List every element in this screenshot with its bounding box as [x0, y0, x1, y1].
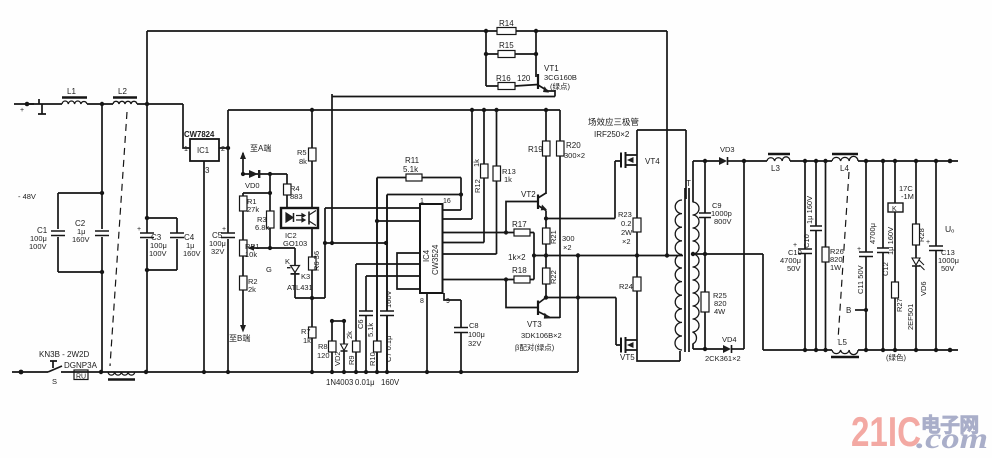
optocoupler IC2 box — [281, 208, 318, 228]
resistor R8 — [331, 321, 333, 372]
wire VT1-emitter line down x=332 — [331, 94, 333, 243]
resistor R21 — [543, 228, 551, 244]
capacitor C10b 1u — [815, 161, 817, 350]
svg-text:ATL431: ATL431 — [287, 283, 313, 292]
capacitor C2 — [95, 231, 109, 236]
svg-text:L2: L2 — [118, 87, 127, 96]
wire R8-VD2 link — [332, 320, 344, 322]
diode VD6 — [912, 258, 920, 265]
optocoupler IC2 internals — [286, 213, 293, 222]
resistor R16 — [486, 85, 538, 87]
transformer T secondary winding — [693, 202, 700, 344]
capacitor C1 — [51, 231, 65, 236]
svg-text:120: 120 — [517, 74, 531, 83]
wire R17 row y=232.5 — [443, 233, 535, 256]
node B arrowhead — [240, 325, 246, 333]
shunt reg K3 ATL431 — [295, 273, 312, 299]
wire C6 stub — [366, 276, 420, 372]
wire bottom left bus — [12, 371, 578, 373]
svg-text:+: + — [793, 242, 797, 249]
resistor R19 — [545, 110, 547, 194]
svg-text:1k×2: 1k×2 — [508, 253, 526, 262]
svg-text:R27: R27 — [895, 298, 904, 312]
wire secondary center tap out — [693, 254, 763, 350]
svg-text:R17: R17 — [512, 220, 527, 229]
svg-text:+: + — [926, 239, 930, 246]
resistor R23 — [636, 165, 638, 256]
svg-text:R9: R9 — [347, 355, 356, 365]
wire IC2 collector riser x=325 — [312, 208, 420, 298]
svg-text:4W: 4W — [714, 307, 726, 316]
resistor R14 — [486, 30, 536, 32]
svg-text:VD4: VD4 — [722, 335, 737, 344]
diode VD0 body — [249, 170, 258, 178]
svg-text:R22: R22 — [549, 270, 558, 284]
resistor R28 — [915, 161, 917, 258]
svg-text:160V: 160V — [72, 235, 90, 244]
capacitor C7 — [380, 311, 394, 316]
svg-text:R14: R14 — [499, 19, 514, 28]
svg-text:Uₒ: Uₒ — [945, 224, 954, 234]
switch S lever — [48, 361, 62, 372]
svg-text:K: K — [892, 206, 897, 213]
svg-text:3CG160B: 3CG160B — [544, 73, 577, 82]
wire top rail — [147, 30, 667, 32]
resistor R15 — [486, 53, 536, 55]
svg-text:C8: C8 — [469, 321, 479, 330]
svg-text:5.1k: 5.1k — [366, 323, 375, 337]
svg-text:6.8k: 6.8k — [255, 223, 269, 232]
wire output bottom rail — [763, 349, 958, 351]
svg-text:5.1k: 5.1k — [403, 165, 419, 174]
wire RP1 wiper — [253, 247, 270, 249]
svg-text:R8: R8 — [318, 342, 328, 351]
transformer T primary winding — [675, 200, 682, 350]
wire R11 left leg / R10 line — [376, 178, 378, 373]
wire rectifier join x=744 — [743, 161, 745, 349]
resistor R10 — [374, 341, 382, 352]
transistor VT1 — [537, 74, 539, 89]
svg-text:K3: K3 — [301, 272, 310, 281]
svg-text:32V: 32V — [468, 339, 481, 348]
svg-text:.com: .com — [916, 422, 988, 455]
svg-text:L1: L1 — [67, 87, 76, 96]
svg-text:4700μ: 4700μ — [868, 223, 877, 244]
wire R18 row y=279.5 — [443, 256, 535, 280]
svg-text:+: + — [20, 107, 24, 114]
resistor R3 — [269, 193, 271, 248]
relay K — [894, 161, 896, 282]
svg-text:2EF501: 2EF501 — [906, 304, 915, 330]
inductor L2 — [113, 101, 137, 104]
wire AC input line y=104 — [27, 104, 190, 148]
svg-text:1: 1 — [184, 146, 188, 153]
svg-text:1k: 1k — [504, 175, 512, 184]
svg-text:VD6: VD6 — [919, 281, 928, 296]
svg-text:120: 120 — [317, 351, 330, 360]
node A arrow — [242, 153, 244, 174]
resistor R2 — [240, 276, 248, 290]
svg-text:21IC: 21IC — [851, 408, 921, 455]
wire secondary top to VD3 — [693, 161, 719, 202]
svg-text:0.2: 0.2 — [621, 219, 631, 228]
wire pin9 to C8 — [444, 293, 461, 372]
svg-text:160V: 160V — [183, 249, 201, 258]
svg-text:VD3: VD3 — [720, 145, 735, 154]
svg-text:8k: 8k — [299, 157, 307, 166]
node B terminal — [855, 309, 866, 311]
svg-text:C12: C12 — [881, 262, 890, 276]
svg-text:VT5: VT5 — [620, 353, 635, 362]
watermark 21IC.com — [851, 408, 988, 455]
svg-text:β配对(绿点): β配对(绿点) — [515, 342, 555, 352]
svg-text:100V: 100V — [29, 242, 47, 251]
inductor L4 — [832, 156, 858, 161]
svg-text:1: 1 — [420, 198, 424, 205]
wire L2 coupling dash — [110, 112, 127, 366]
svg-text:×2: ×2 — [622, 237, 631, 246]
svg-text:VT2: VT2 — [521, 190, 536, 199]
wire C4 branch — [147, 218, 177, 270]
svg-text:1μ 160V: 1μ 160V — [886, 227, 895, 255]
resistor R25 — [704, 254, 706, 349]
capacitor C6 — [359, 311, 373, 316]
svg-text:2k: 2k — [345, 331, 354, 339]
svg-text:R18: R18 — [512, 266, 527, 275]
svg-text:2: 2 — [221, 146, 225, 153]
diode VD4 — [723, 345, 731, 353]
svg-text:32V: 32V — [211, 247, 224, 256]
svg-text:1k: 1k — [472, 159, 481, 167]
wire pin16 loop — [387, 195, 461, 211]
text labels output section — [705, 145, 959, 363]
svg-text:R15: R15 — [499, 41, 514, 50]
svg-text:100μ: 100μ — [468, 330, 485, 339]
svg-text:50V: 50V — [787, 264, 800, 273]
wire pin2 stub — [377, 220, 420, 222]
wire C7 line x=387 — [386, 195, 388, 373]
svg-text:R16: R16 — [496, 74, 511, 83]
shunt reg K3 symbol — [291, 266, 300, 273]
svg-text:1N4003: 1N4003 — [326, 378, 353, 387]
wire R3 to K3 — [270, 248, 295, 266]
wire +24V rail y=110 — [228, 109, 560, 111]
inductor L1 — [62, 101, 87, 104]
wire L4-L5 coupling dash — [838, 172, 849, 340]
svg-text:2CK361×2: 2CK361×2 — [705, 354, 741, 363]
mosfet VT5 — [620, 338, 622, 353]
svg-text:10k: 10k — [245, 250, 257, 259]
svg-text:R24: R24 — [619, 282, 633, 291]
rotated small labels — [312, 159, 558, 366]
svg-text:L3: L3 — [771, 164, 780, 173]
wire R14 branch verticals — [486, 31, 536, 86]
wire pin8 down — [426, 293, 428, 372]
wire right drop of top rail to center-tap line — [666, 31, 668, 256]
mosfet VT4 — [620, 153, 622, 168]
svg-text:R7: R7 — [301, 327, 311, 336]
potentiometer RP1 — [240, 240, 248, 256]
text labels regulator cluster — [229, 143, 485, 387]
wire VT2 base — [506, 202, 538, 233]
svg-text:3: 3 — [205, 166, 210, 175]
svg-text:S: S — [52, 377, 57, 386]
wire secondary bottom to VD4 — [693, 344, 723, 349]
svg-text:R10: R10 — [368, 352, 377, 366]
wire RP1-R2 — [242, 256, 244, 276]
svg-text:R19: R19 — [528, 145, 543, 154]
svg-text:RU: RU — [76, 374, 86, 381]
svg-text:R6 36: R6 36 — [312, 251, 321, 271]
wire VT5 gate drive — [546, 298, 621, 346]
svg-text:+: + — [857, 246, 861, 253]
wire pin stub to rail x=472 — [443, 110, 473, 219]
resistor R22 — [543, 268, 551, 284]
svg-text:R5: R5 — [297, 148, 307, 157]
svg-text:B: B — [846, 306, 851, 315]
snubber capacitor C9 — [704, 161, 706, 254]
svg-text:50V: 50V — [941, 264, 954, 273]
svg-text:C7 0.1μ: C7 0.1μ — [384, 336, 393, 362]
svg-text:160V: 160V — [381, 378, 400, 387]
svg-text:KN3B - 2W2D: KN3B - 2W2D — [39, 350, 89, 359]
resistor R20 — [559, 110, 561, 141]
svg-text:K: K — [285, 257, 290, 266]
svg-text:L5: L5 — [838, 338, 847, 347]
inductor L5 — [832, 350, 858, 355]
capacitor C4 — [170, 233, 184, 238]
svg-text:G: G — [266, 265, 272, 274]
svg-text:1k: 1k — [303, 336, 311, 345]
capacitor C3 — [140, 233, 154, 238]
svg-text:R11: R11 — [405, 156, 420, 165]
wire bus upturn at x=578 — [577, 256, 579, 373]
IC4 box CW3524 — [420, 204, 443, 293]
svg-text:- 48V: - 48V — [18, 192, 36, 201]
svg-text:2W: 2W — [621, 228, 633, 237]
svg-text:VT4: VT4 — [645, 157, 660, 166]
svg-text:IC4: IC4 — [422, 249, 431, 262]
capacitor C5 — [221, 233, 235, 238]
resistor R17 — [514, 229, 530, 236]
diode VD3 — [719, 157, 727, 165]
svg-text:300: 300 — [562, 234, 575, 243]
resistor R7 — [311, 298, 313, 372]
svg-text:DGNP3A: DGNP3A — [64, 361, 98, 370]
diode VD0 — [243, 173, 287, 175]
svg-text:C6: C6 — [356, 319, 365, 329]
wire y=243 link — [325, 242, 386, 244]
wire C5 vertical — [227, 148, 229, 372]
wire R1 top link — [243, 174, 270, 196]
svg-text:VT1: VT1 — [544, 64, 559, 73]
svg-text:R20: R20 — [566, 141, 581, 150]
resistor R24 — [636, 256, 638, 341]
svg-text:0.01μ: 0.01μ — [355, 378, 375, 387]
svg-text:场效应三极管: 场效应三极管 — [588, 117, 639, 127]
wire R9 stub — [356, 264, 420, 372]
capacitor C12 — [882, 161, 884, 350]
svg-text:至B端: 至B端 — [229, 333, 250, 343]
svg-text:VD0: VD0 — [245, 181, 260, 190]
resistor R26 — [825, 161, 827, 350]
wire output top rail — [744, 160, 958, 162]
svg-text:800V: 800V — [714, 217, 732, 226]
resistor R18 — [514, 276, 530, 283]
svg-text:L4: L4 — [840, 164, 849, 173]
capacitor C10 output — [804, 161, 806, 350]
svg-text:R12: R12 — [473, 179, 482, 193]
svg-text:R28: R28 — [917, 228, 926, 242]
wire C2 vertical x=102 — [101, 104, 103, 372]
svg-text:T: T — [686, 179, 691, 188]
svg-text:×2: ×2 — [563, 243, 572, 252]
wire VT3 base — [506, 280, 538, 308]
svg-text:IC1: IC1 — [197, 146, 209, 155]
svg-text:9: 9 — [446, 298, 450, 305]
svg-text:100V: 100V — [149, 249, 167, 258]
svg-text:300×2: 300×2 — [564, 151, 585, 160]
svg-text:160V: 160V — [384, 290, 393, 308]
svg-text:CW7824: CW7824 — [184, 130, 215, 139]
wire center tap supply y=255.5 — [534, 255, 683, 257]
text labels driver section — [496, 19, 691, 362]
svg-text:16: 16 — [443, 198, 451, 205]
text labels left section — [18, 87, 226, 386]
svg-text:VT3: VT3 — [527, 320, 542, 329]
diode VD2 — [343, 321, 345, 372]
svg-text:8: 8 — [420, 298, 424, 305]
wire VT4 drain — [637, 130, 686, 199]
resistor R11 — [377, 178, 461, 195]
input terminal — [14, 99, 46, 114]
svg-text:CW3524: CW3524 — [431, 244, 440, 275]
resistor R6 — [311, 228, 313, 298]
svg-text:883: 883 — [290, 192, 303, 201]
regulator IC1 box — [190, 139, 219, 161]
svg-text:3DK106B×2: 3DK106B×2 — [521, 331, 562, 340]
resistor R4 — [286, 174, 288, 208]
svg-text:C10: C10 — [802, 234, 811, 248]
svg-text:R21: R21 — [549, 230, 558, 244]
svg-text:C11 50V: C11 50V — [856, 265, 865, 294]
fuse RU — [74, 370, 88, 380]
capacitor C13 — [935, 161, 937, 350]
node B arrow — [242, 290, 244, 326]
resistor R12 — [443, 110, 485, 243]
svg-text:GO103: GO103 — [283, 239, 307, 248]
svg-text:2k: 2k — [248, 285, 256, 294]
transformer T core — [685, 188, 689, 352]
svg-text:(绿点): (绿点) — [550, 82, 570, 91]
wire IC1 pin2 to rail riser — [219, 110, 228, 148]
wire IC1 pin3 down — [203, 161, 205, 372]
svg-text:R23: R23 — [618, 210, 632, 219]
resistor R1 — [240, 196, 248, 211]
svg-text:1W: 1W — [830, 263, 842, 272]
wire R1-RP1 — [242, 211, 244, 240]
svg-text:-1M: -1M — [901, 192, 914, 201]
resistor R13 — [443, 110, 497, 254]
wire green-dot line y=96.5 — [332, 90, 555, 97]
svg-text:1μ 160V: 1μ 160V — [805, 196, 814, 224]
resistor R9 — [353, 341, 361, 352]
capacitor C8 — [454, 328, 468, 333]
node A arrowhead — [240, 152, 246, 160]
svg-text:VD2: VD2 — [333, 351, 342, 366]
wire tall left vertical x=147 — [146, 31, 148, 372]
svg-text:IRF250×2: IRF250×2 — [594, 130, 630, 139]
wire VT5 source to primary bottom — [637, 350, 680, 361]
inductor L3 — [767, 157, 790, 161]
wire C1 branch — [58, 193, 102, 272]
inductor L2 bottom winding — [108, 372, 135, 375]
resistor R5 — [311, 110, 313, 208]
transistor VT3 — [537, 301, 539, 316]
resistor R27 — [892, 282, 899, 298]
wire pin jumper C shape — [397, 253, 420, 289]
capacitor C11 — [865, 161, 867, 350]
transistor VT2 — [537, 195, 539, 210]
svg-text:+: + — [137, 226, 141, 233]
wire VT4 gate drive — [546, 161, 621, 219]
svg-text:+: + — [222, 226, 226, 233]
wire R20 long drop — [559, 156, 561, 318]
potentiometer RP1 wiper arrowhead — [248, 245, 255, 251]
svg-text:至A端: 至A端 — [250, 143, 271, 153]
svg-text:(绿色): (绿色) — [886, 352, 906, 362]
svg-text:27k: 27k — [247, 205, 259, 214]
